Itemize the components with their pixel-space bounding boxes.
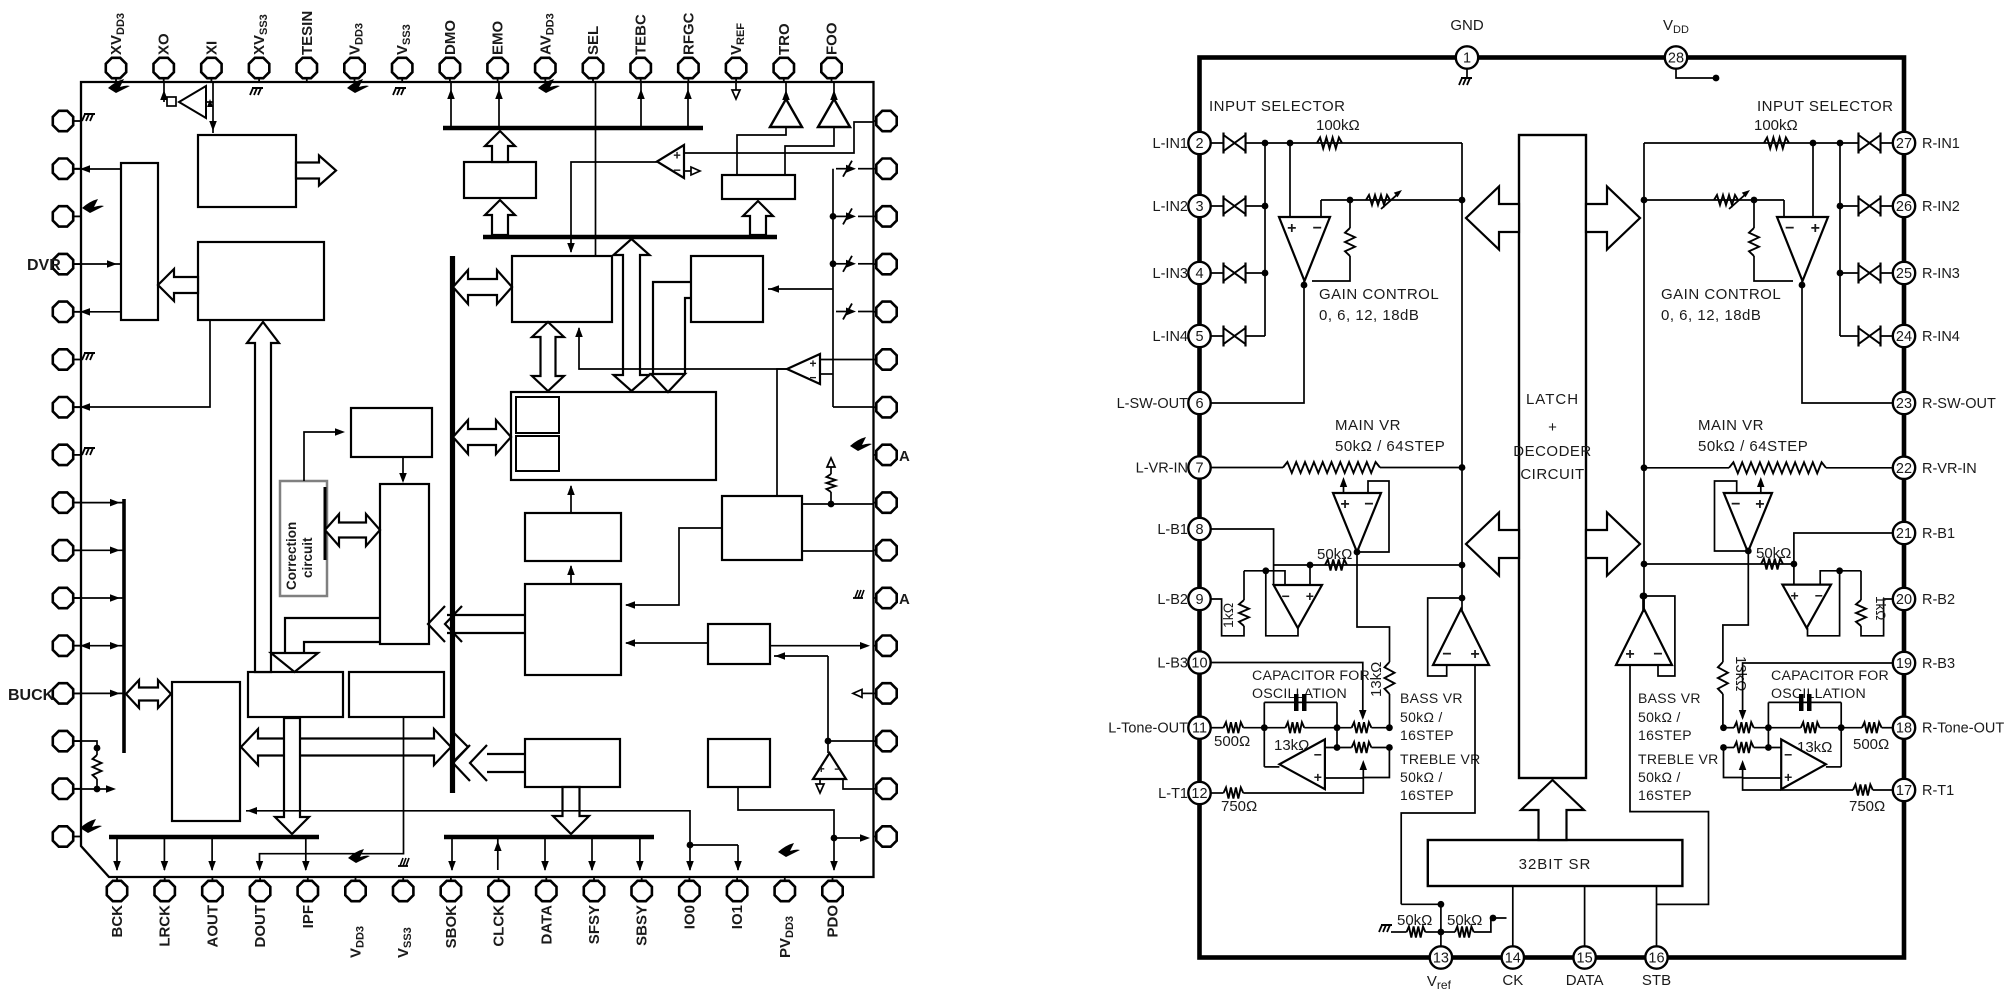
svg-text:1kΩ: 1kΩ	[1220, 603, 1236, 628]
block arrow bus2-B8 double	[614, 239, 650, 391]
op-amp A2	[787, 354, 820, 384]
block B8 (DSP core)	[511, 392, 716, 480]
wire B11 to B10a	[626, 528, 722, 605]
pin (left)	[73, 168, 81, 170]
block arrow bus2 to B4	[743, 201, 773, 235]
wire pin to ctrl	[74, 597, 124, 599]
pin (left)	[73, 788, 81, 790]
wire A1 plus input	[684, 122, 874, 153]
block arrow SR to latch	[1521, 780, 1584, 840]
pin VDD3 (bottom)	[355, 877, 357, 881]
block B1 (oscillator control)	[198, 135, 296, 207]
ground glyph left pin1	[84, 113, 95, 115]
svg-text:17: 17	[1896, 783, 1912, 799]
pin SBSY (bottom)	[641, 877, 643, 881]
pin CLCK (bottom)	[498, 877, 500, 881]
resistor left	[93, 755, 102, 779]
pin SEL (top)	[592, 78, 594, 82]
pin (right)	[874, 215, 877, 217]
wire STB	[1656, 886, 1658, 946]
block arrow latch right low	[1586, 513, 1640, 576]
block arrow B5-B8 double	[532, 322, 564, 391]
wire L-IN1 net	[1210, 142, 1462, 144]
op-amp tone R	[1781, 739, 1826, 789]
wire L-B1	[1210, 529, 1274, 585]
pin 28 VDD	[1665, 46, 1687, 68]
bottom bus right	[444, 835, 654, 840]
pin DATA (bottom)	[545, 877, 547, 881]
svg-text:L-B1: L-B1	[1157, 522, 1188, 538]
svg-text:BASS VR: BASS VR	[1400, 690, 1463, 706]
block B10b	[525, 739, 620, 787]
buffer TRO	[770, 99, 802, 127]
wire to gain+ L	[1289, 143, 1291, 217]
svg-text:50kΩ / 64STEP: 50kΩ / 64STEP	[1698, 438, 1808, 455]
op-amp A1	[657, 145, 684, 178]
pin (right)	[874, 740, 877, 742]
op-amp gain L	[1279, 217, 1330, 281]
svg-text:−: −	[1364, 496, 1373, 513]
pin BCK (bottom)	[116, 877, 118, 881]
ground glyph left pin8	[84, 447, 95, 449]
block arrow BUCK to B14	[126, 680, 171, 708]
ground symbol pin1	[1466, 69, 1468, 79]
switch to pin	[858, 168, 874, 170]
supply glyph PVDD3	[778, 843, 800, 857]
pin (left)	[73, 692, 81, 694]
pin SFSY (bottom)	[593, 877, 595, 881]
wire IO0 IO1	[687, 842, 694, 849]
pin (left)	[73, 597, 81, 599]
svg-text:BASS VR: BASS VR	[1638, 690, 1701, 706]
wire pin to ctrl	[74, 549, 124, 551]
wire SEL	[595, 82, 597, 256]
wire DMO	[450, 82, 452, 128]
svg-text:+: +	[1625, 646, 1634, 663]
left IC block diagram outer border	[81, 82, 874, 877]
stub arrow right pin13	[862, 692, 874, 694]
block arrow latch left up	[1466, 187, 1519, 250]
resistor 13k L vert	[1385, 662, 1395, 694]
svg-text:L-SW-OUT: L-SW-OUT	[1117, 396, 1189, 412]
block arrow bus2 to B6	[485, 200, 515, 235]
wire bus to pin	[116, 838, 118, 870]
block B4 (output driver)	[722, 175, 795, 199]
pin (left)	[73, 406, 81, 408]
pin 6 L-SW-OUT	[1188, 392, 1210, 414]
switch to pin	[858, 263, 874, 265]
svg-text:circuit: circuit	[300, 537, 315, 578]
svg-text:DVR: DVR	[27, 257, 61, 274]
treble wiper R	[1742, 764, 1744, 778]
resistor 500 L	[1224, 722, 1244, 733]
svg-text:−: −	[1731, 496, 1740, 513]
pin PVDD3 (bottom)	[784, 877, 786, 881]
sum fb R	[1643, 596, 1675, 676]
svg-text:L-IN1: L-IN1	[1153, 136, 1188, 152]
wire R collector	[1643, 143, 1645, 612]
wire EMO	[498, 82, 500, 128]
wire to gain+ R	[1812, 143, 1814, 217]
block B12	[708, 624, 770, 664]
tone out R	[1826, 766, 1841, 768]
resistor 100k L	[1317, 138, 1342, 149]
svg-text:500Ω: 500Ω	[1853, 736, 1889, 753]
svg-text:R-IN4: R-IN4	[1922, 329, 1960, 345]
pin (right)	[874, 692, 877, 694]
pin XVSS3 (top)	[258, 78, 260, 82]
wire A1 out to B5	[571, 162, 657, 252]
svg-text:750Ω: 750Ω	[1849, 798, 1885, 815]
wire to 13k L	[1357, 552, 1390, 662]
buffer FOO	[818, 99, 850, 127]
pin 1 GND	[1456, 46, 1478, 68]
pin (right)	[874, 359, 877, 361]
block B15a	[248, 672, 343, 717]
svg-text:−: −	[1815, 588, 1823, 604]
block B16 (memory)	[380, 484, 429, 644]
wire pin13 left	[74, 741, 97, 755]
svg-text:16STEP: 16STEP	[1638, 787, 1692, 803]
svg-text:TRO: TRO	[776, 23, 793, 55]
wire B17 to B16	[402, 457, 404, 481]
svg-text:6: 6	[1195, 396, 1203, 412]
treble VR L	[1325, 747, 1352, 749]
svg-text:DECODER: DECODER	[1513, 443, 1592, 460]
svg-text:L-Tone-OUT: L-Tone-OUT	[1108, 721, 1188, 737]
pin (left)	[73, 502, 81, 504]
svg-text:26: 26	[1896, 199, 1912, 215]
svg-text:SBOK: SBOK	[443, 905, 460, 949]
svg-text:−: −	[1442, 646, 1451, 663]
svg-text:12: 12	[1191, 786, 1207, 802]
pin (right)	[874, 311, 877, 313]
pin LRCK (bottom)	[164, 877, 166, 881]
wire B11 right a	[802, 503, 874, 505]
svg-text:IO0: IO0	[681, 905, 698, 929]
wire L input bus	[1264, 143, 1266, 336]
svg-text:−: −	[673, 163, 681, 178]
wire L-IN3	[1210, 272, 1265, 274]
pin SBOK (bottom)	[450, 877, 452, 881]
wire B10a to B9	[570, 566, 572, 584]
wire R-IN3	[1840, 272, 1894, 274]
svg-text:L-IN2: L-IN2	[1153, 199, 1188, 215]
block arrow B10a to B16 (nested chevron)	[447, 614, 525, 616]
svg-text:R-SW-OUT: R-SW-OUT	[1922, 396, 1996, 412]
wire gain out L	[1210, 281, 1304, 403]
svg-text:23: 23	[1896, 396, 1912, 412]
pin (left)	[73, 836, 81, 838]
svg-text:−: −	[1784, 746, 1792, 762]
svg-text:A: A	[899, 448, 910, 465]
op-amp A3	[813, 753, 846, 779]
pin 12 L-T1	[1188, 782, 1210, 804]
svg-text:50kΩ: 50kΩ	[1317, 546, 1352, 563]
resistor 750 L	[1224, 788, 1244, 799]
wire bus to pin	[163, 838, 165, 870]
pin 4 L-IN3	[1222, 263, 1224, 284]
main VR R	[1644, 467, 1729, 469]
wire B11 right b	[802, 550, 874, 552]
block B3 (controller)	[198, 242, 324, 320]
bass VR L	[1352, 722, 1372, 733]
svg-text:+: +	[1306, 588, 1314, 604]
svg-text:−: −	[834, 762, 841, 776]
resistor 13k L horiz	[1264, 727, 1285, 729]
resistor 750 R	[1853, 785, 1873, 796]
svg-text:22: 22	[1896, 461, 1912, 477]
sum plus R	[1630, 665, 1709, 904]
pin 13 V|ref	[1430, 946, 1452, 968]
pin 19 R-B3	[1893, 652, 1915, 674]
pin 11 L-Tone-OUT	[1188, 717, 1210, 739]
pin (left)	[73, 311, 81, 313]
wire R-T1	[1743, 778, 1853, 790]
var resistor L	[1366, 195, 1390, 205]
pin 14 CK	[1502, 946, 1524, 968]
wire A2 inputs	[820, 359, 874, 361]
svg-text:−: −	[1314, 746, 1322, 762]
svg-text:GAIN CONTROL: GAIN CONTROL	[1661, 286, 1781, 303]
svg-text:IO1: IO1	[729, 905, 746, 929]
svg-text:+: +	[1790, 588, 1798, 604]
wire R-IN4	[1840, 335, 1894, 337]
pin DOUT (bottom)	[259, 877, 261, 881]
vref divider	[1401, 903, 1441, 905]
treble net R	[1724, 748, 1743, 778]
svg-text:50kΩ: 50kΩ	[1756, 545, 1791, 562]
pin 16 STB	[1645, 946, 1667, 968]
pin (left)	[73, 549, 81, 551]
svg-text:TEBC: TEBC	[633, 14, 650, 55]
wire R collector low	[1643, 596, 1645, 612]
correction circuit box	[280, 481, 327, 596]
pin 20 R-B2	[1893, 588, 1915, 610]
wire pin to ctrl	[74, 502, 124, 504]
resistor 50k div2	[1441, 931, 1455, 933]
svg-text:GAIN CONTROL: GAIN CONTROL	[1319, 286, 1439, 303]
wire B17 in	[304, 432, 340, 481]
ground vref	[1391, 931, 1401, 933]
svg-text:+: +	[1340, 496, 1349, 513]
pin AVDD3 (top)	[544, 78, 546, 82]
pin (left)	[73, 359, 81, 361]
op-amp gain R	[1777, 217, 1828, 281]
ground glyph right pinA2	[853, 597, 863, 599]
wire BUCK	[74, 692, 124, 694]
svg-text:SBSY: SBSY	[634, 905, 651, 946]
block B8 sub a	[516, 397, 559, 433]
op-amp sum L	[1433, 609, 1489, 665]
pin IO1 (bottom)	[736, 877, 738, 881]
svg-text:SEL: SEL	[585, 26, 602, 55]
pin IO0 (bottom)	[688, 877, 690, 881]
pin IPF (bottom)	[307, 877, 309, 881]
svg-text:FOO: FOO	[824, 22, 841, 55]
block B5 (clock gen)	[512, 256, 612, 322]
ground glyph VSS3 bottom	[398, 865, 408, 867]
resistor 1k L	[1244, 570, 1266, 572]
wire R-B1	[1794, 533, 1894, 564]
supply glyph AVDD3	[538, 79, 560, 93]
svg-text:+: +	[1811, 220, 1820, 237]
pin RFGC (top)	[687, 78, 689, 82]
wire L-B3	[1210, 663, 1363, 719]
fb loop mainbuf L	[1357, 481, 1389, 552]
pin 23 R-SW-OUT	[1893, 392, 1915, 414]
block B14 (host interface)	[172, 682, 240, 821]
gain fb net R	[1644, 199, 1784, 201]
wire pin to ctrl	[74, 645, 124, 647]
svg-text:R-IN2: R-IN2	[1922, 199, 1960, 215]
svg-text:OSCILLATION: OSCILLATION	[1771, 686, 1866, 702]
wire bus to pin	[591, 838, 593, 870]
svg-text:L-T1: L-T1	[1158, 786, 1188, 802]
pin 2 L-IN1	[1222, 133, 1224, 154]
svg-text:L-B3: L-B3	[1157, 656, 1188, 672]
pin PDO (bottom)	[832, 877, 834, 881]
block B8 sub b	[516, 436, 559, 471]
block arrow B1 output	[296, 156, 336, 186]
bottom bus left	[109, 835, 319, 840]
pin 27 R-IN1	[1857, 133, 1859, 154]
svg-text:21: 21	[1896, 526, 1912, 542]
block arrow latch right up	[1586, 187, 1640, 250]
main VR L	[1210, 467, 1283, 469]
svg-text:50kΩ /: 50kΩ /	[1400, 709, 1443, 725]
svg-text:+: +	[809, 357, 816, 371]
resistor 13k R vert	[1718, 662, 1728, 694]
ctrl line vertical	[122, 499, 126, 753]
svg-text:BCK: BCK	[109, 905, 126, 938]
svg-text:−: −	[1282, 588, 1290, 604]
svg-text:0, 6, 12, 18dB: 0, 6, 12, 18dB	[1319, 307, 1419, 324]
pin 5 L-IN4	[1222, 326, 1224, 347]
svg-text:3: 3	[1195, 199, 1203, 215]
block arrow B16 to B15a (bent)	[285, 618, 380, 653]
pin 15 DATA	[1573, 946, 1595, 968]
wire A2-B5 line	[579, 328, 787, 369]
svg-text:TESIN: TESIN	[299, 11, 316, 55]
block B17	[351, 408, 432, 457]
svg-text:16STEP: 16STEP	[1400, 727, 1454, 743]
svg-text:+: +	[1287, 220, 1296, 237]
resistor pullup	[830, 492, 832, 504]
svg-text:4: 4	[1195, 266, 1203, 282]
pin VSS3 (top)	[401, 78, 403, 82]
wire XI to block	[212, 82, 214, 133]
block B15b	[349, 672, 444, 717]
pin 18 R-Tone-OUT	[1893, 717, 1915, 739]
block arrow B3 to B2	[158, 269, 198, 301]
ground glyph XVSS3	[252, 87, 263, 89]
block arrow bus-B8 double	[453, 420, 511, 454]
resistor 50k R	[1761, 559, 1783, 570]
supply glyph left pin3	[82, 199, 104, 213]
svg-text:20: 20	[1896, 592, 1912, 608]
svg-text:−: −	[809, 370, 816, 384]
svg-text:10: 10	[1191, 656, 1207, 672]
pin FOO (top)	[831, 78, 833, 82]
pin (right)	[874, 549, 877, 551]
pin (left)	[73, 740, 81, 742]
block B2 (interface)	[121, 163, 158, 320]
wire FOO	[833, 82, 835, 99]
tone net L	[1263, 702, 1265, 767]
pin (right)	[874, 836, 877, 838]
pin EMO (top)	[497, 78, 499, 82]
block arrow B10b to bottom bus	[553, 787, 589, 834]
wire into B12	[774, 655, 828, 657]
50k net L	[1274, 564, 1461, 566]
resistor 1k R	[1840, 570, 1861, 572]
block arrow B15 to bottom bus	[275, 718, 309, 834]
svg-text:−: −	[1313, 220, 1322, 237]
LATCH DECODER box	[1519, 135, 1586, 778]
svg-text:INPUT SELECTOR: INPUT SELECTOR	[1209, 98, 1345, 115]
svg-text:CIRCUIT: CIRCUIT	[1520, 466, 1584, 483]
svg-text:R-B2: R-B2	[1922, 592, 1955, 608]
svg-text:L-IN4: L-IN4	[1153, 329, 1188, 345]
svg-text:DATA: DATA	[1566, 972, 1604, 989]
wire bus to pin	[211, 838, 213, 870]
svg-text:11: 11	[1192, 721, 1207, 737]
svg-text:CAPACITOR FOR: CAPACITOR FOR	[1252, 668, 1370, 684]
50k net R	[1644, 563, 1794, 565]
wire gain out R	[1802, 281, 1894, 403]
svg-text:DATA: DATA	[538, 905, 555, 945]
block B12b	[708, 739, 770, 787]
pin 9 L-B2	[1188, 588, 1210, 610]
svg-text:50kΩ /: 50kΩ /	[1638, 709, 1681, 725]
wire pin18	[1882, 727, 1894, 729]
cap osc loop R	[1768, 701, 1841, 703]
wire DATA	[1584, 886, 1586, 946]
resistor 50k L	[1325, 560, 1347, 571]
op-amp b2 L	[1274, 585, 1322, 628]
wire B12b PDO	[738, 787, 834, 870]
op-amp mainbuf L	[1333, 493, 1381, 552]
svg-text:25: 25	[1896, 266, 1912, 282]
power bus 1	[443, 126, 703, 131]
block arrow CC-B16 double	[325, 514, 380, 546]
stub pin28	[1676, 69, 1714, 79]
wire L-IN4	[1210, 335, 1265, 337]
wire VREF stub	[735, 82, 737, 92]
block B9	[525, 513, 621, 561]
svg-text:8: 8	[1195, 522, 1203, 538]
A3 out	[843, 779, 874, 789]
svg-text:R-B3: R-B3	[1922, 656, 1955, 672]
pin VREF (top)	[735, 78, 737, 82]
pin (right)	[874, 406, 877, 408]
svg-text:32BIT SR: 32BIT SR	[1519, 856, 1592, 873]
pin TRO (top)	[783, 78, 785, 82]
svg-text:LRCK: LRCK	[157, 905, 174, 947]
b2 fb L	[1266, 571, 1298, 636]
svg-text:+: +	[1784, 769, 1792, 785]
block B6 (regulator)	[464, 162, 536, 198]
audio IC outer border	[1200, 58, 1905, 958]
cap osc loop L	[1264, 701, 1337, 703]
switch bus right	[832, 169, 834, 407]
svg-text:R-T1: R-T1	[1922, 783, 1954, 799]
pin 22 R-VR-IN	[1893, 457, 1915, 479]
wire to 13k R	[1723, 551, 1748, 662]
svg-text:24: 24	[1896, 329, 1912, 345]
svg-text:5: 5	[1195, 329, 1203, 345]
